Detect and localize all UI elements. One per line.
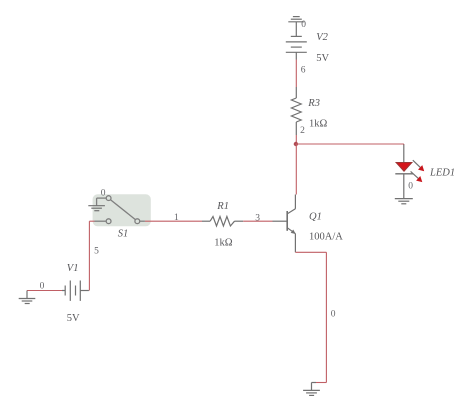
svg-text:0: 0 <box>301 20 306 30</box>
wire S1 to R1 <box>145 220 202 222</box>
svg-text:R1: R1 <box>216 201 229 212</box>
svg-text:V2: V2 <box>316 32 328 43</box>
wire down to LED anode <box>403 144 405 145</box>
resistor R1 <box>202 217 243 227</box>
svg-text:0: 0 <box>408 182 413 192</box>
svg-text:2: 2 <box>300 126 305 136</box>
resistor R3 <box>291 87 301 135</box>
svg-text:6: 6 <box>301 66 306 76</box>
switch S1 highlight box <box>93 194 151 226</box>
junction node 2 dot <box>294 142 298 146</box>
svg-text:R3: R3 <box>307 98 320 109</box>
LED1 <box>395 145 424 199</box>
switch S1 <box>95 196 145 224</box>
battery V2 <box>286 36 307 59</box>
svg-text:3: 3 <box>255 214 260 224</box>
svg-text:5V: 5V <box>67 313 80 324</box>
svg-text:1kΩ: 1kΩ <box>309 119 328 130</box>
ground left (V1) <box>19 291 36 304</box>
svg-text:0: 0 <box>101 189 106 199</box>
svg-text:LED1: LED1 <box>429 168 455 179</box>
ground bottom (emitter) <box>303 383 320 396</box>
svg-text:V1: V1 <box>67 263 79 274</box>
wire S1 to V1 <box>89 221 94 290</box>
svg-text:1kΩ: 1kΩ <box>214 238 233 249</box>
wire junction to LED (horizontal) <box>296 143 404 145</box>
wire Q1 emitter to bottom <box>295 252 326 382</box>
svg-text:0: 0 <box>331 310 336 320</box>
wire V1 to ground left <box>27 290 62 292</box>
svg-text:Q1: Q1 <box>309 212 322 223</box>
svg-text:S1: S1 <box>118 229 129 240</box>
svg-text:5: 5 <box>94 247 99 257</box>
ground top (above V2, inverted) <box>288 17 304 37</box>
wire R3 to junction <box>295 135 297 144</box>
ground below LED <box>395 199 413 204</box>
wire V2 to R3 <box>295 60 297 88</box>
wire junction to Q1 collector <box>295 144 297 195</box>
transistor Q1 <box>273 195 296 253</box>
ground at S1 <box>88 206 105 211</box>
svg-text:5V: 5V <box>316 53 329 64</box>
battery V1 <box>62 281 89 301</box>
node 3 wire R1 to Q1 <box>243 220 272 222</box>
svg-text:100A/A: 100A/A <box>309 232 343 243</box>
